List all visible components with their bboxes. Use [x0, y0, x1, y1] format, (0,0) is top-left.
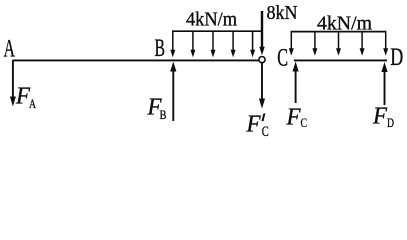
- svg-text:F: F: [246, 112, 261, 138]
- svg-text:F: F: [286, 105, 301, 131]
- distributed load q2 arrow 1: [289, 32, 294, 56]
- force F_A (downward arrow at A): [10, 60, 16, 106]
- svg-text:C: C: [262, 124, 269, 138]
- label C: [277, 45, 288, 72]
- svg-text:B: B: [155, 35, 166, 62]
- svg-text:F: F: [372, 104, 387, 130]
- svg-text:C: C: [301, 115, 308, 130]
- distributed load q2 arrow 4: [360, 32, 365, 56]
- distributed load q2 arrow 5: [383, 32, 388, 56]
- svg-text:D: D: [390, 44, 403, 71]
- distributed load q1 arrow 4: [231, 31, 236, 57]
- distributed load q1 arrow 3: [211, 31, 216, 57]
- force F_D (upward reaction arrow at D): [381, 62, 387, 105]
- label F_A: [15, 84, 36, 112]
- distributed load q2 arrow 3: [336, 32, 341, 56]
- distributed load q1 arrow 2: [190, 31, 195, 57]
- label 8kN: [267, 2, 298, 24]
- distributed load q2 arrow 2: [312, 32, 317, 56]
- label 4kN/m (right distributed load): [317, 12, 372, 34]
- svg-text:A: A: [4, 35, 16, 62]
- label F_B: [147, 95, 167, 123]
- label A: [4, 35, 16, 62]
- distributed load q2 top line (C to D): [291, 31, 387, 33]
- force 8kN (point load arrow onto hinge): [259, 11, 264, 55]
- label F_C: [286, 105, 307, 131]
- force F_B (upward reaction arrow at B): [170, 62, 176, 122]
- force F'_C (downward arrow below hinge): [259, 63, 265, 109]
- distributed load q1 top line (B to hinge): [172, 30, 262, 32]
- distributed load q1 arrow 5: [250, 31, 255, 57]
- svg-text:4kN/m: 4kN/m: [186, 8, 237, 30]
- beam AC (left beam): [12, 59, 258, 61]
- force F_C (upward reaction arrow at C): [293, 62, 299, 104]
- distributed load q1 arrow 1: [170, 31, 175, 57]
- label F_D: [372, 104, 394, 131]
- label D: [390, 44, 403, 71]
- svg-text:C: C: [277, 45, 288, 72]
- svg-text:D: D: [387, 115, 394, 130]
- svg-text:A: A: [29, 96, 36, 111]
- svg-text:B: B: [160, 107, 167, 122]
- beam CD (right beam): [294, 59, 387, 61]
- label B: [155, 35, 166, 62]
- label 4kN/m (left distributed load): [186, 8, 237, 30]
- label F'_C: [246, 112, 269, 141]
- hinge circle at C': [259, 57, 265, 63]
- svg-text:8kN: 8kN: [267, 2, 298, 24]
